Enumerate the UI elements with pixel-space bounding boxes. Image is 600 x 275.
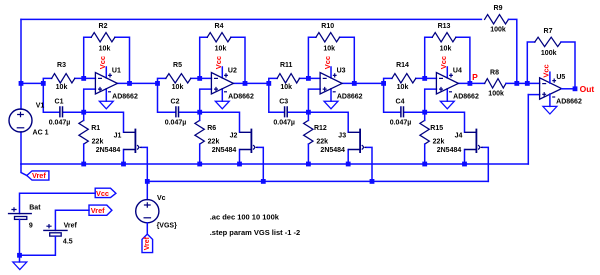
svg-text:2N5484: 2N5484 [320, 147, 345, 154]
wire stage3 gate stub [366, 147, 372, 181]
wire stage4 input riser and C lead [384, 78, 401, 112]
capacitor C3 0.047u [285, 106, 288, 117]
svg-text:Vcc: Vcc [96, 189, 109, 198]
svg-text:Bat: Bat [29, 205, 41, 212]
wire stage2 feedback loop left [200, 37, 208, 78]
svg-text:AD8662: AD8662 [453, 93, 479, 100]
svg-text:AC 1: AC 1 [33, 130, 49, 137]
svg-text:Vcc: Vcc [323, 56, 332, 69]
wire stage3 input riser and C lead [269, 78, 284, 112]
svg-text:R5: R5 [173, 62, 182, 69]
wire stage2 drain riser [200, 112, 240, 132]
resistor R5 series 10k [166, 74, 191, 83]
wire R9 to U5 inverting node [509, 19, 517, 83]
wire U5 + input from Vref bus [528, 94, 539, 96]
svg-text:10k: 10k [215, 46, 227, 53]
battery Vref 4.5V [43, 229, 67, 231]
svg-text:10k: 10k [99, 46, 111, 53]
wire opamp U3 V- pin [330, 89, 332, 101]
resistor R15 22k vertical [424, 111, 426, 113]
wire stage4 + input riser [425, 89, 437, 112]
source Vc VGS [136, 200, 159, 223]
wire Vc to Vref flag [146, 223, 148, 234]
wire input riser from top bus to V1 [20, 19, 22, 109]
svg-text:J1: J1 [114, 133, 122, 140]
svg-text:.step param VGS list -1 -2: .step param VGS list -1 -2 [210, 228, 300, 237]
wire gate bus [147, 180, 488, 182]
capacitor C2 0.047u [176, 106, 179, 117]
wire stage4 feedback loop right to output [456, 37, 470, 83]
resistor R8 100k [485, 79, 506, 88]
wire stage1 drain riser [84, 112, 124, 132]
wire gate bus to Vc [146, 181, 148, 199]
net flag Vref at battery [89, 205, 112, 215]
net flag Vcc [95, 188, 116, 197]
wire stage2 cap to + node [179, 111, 199, 113]
capacitor C1 0.047u [60, 106, 63, 117]
svg-text:R7: R7 [544, 28, 553, 35]
wire Vref battery minus [20, 236, 56, 255]
svg-text:P: P [472, 72, 478, 82]
net flag Vref below Vc [142, 234, 153, 253]
svg-text:U3: U3 [337, 68, 346, 75]
svg-text:R14: R14 [396, 62, 409, 69]
wire stage3 output [342, 82, 384, 84]
svg-text:AD8662: AD8662 [228, 93, 254, 100]
svg-text:Vref: Vref [32, 171, 46, 180]
wire opamp U2 V- pin [221, 89, 223, 101]
wire stage1 input riser and C lead [43, 78, 59, 112]
svg-text:J4: J4 [455, 133, 463, 140]
svg-text:Vref: Vref [91, 206, 105, 215]
wire stage3 source drop [347, 150, 349, 165]
wire opamp U2 V+ pin [221, 67, 223, 78]
svg-text:C2: C2 [171, 98, 180, 105]
wire stage1 gate stub [141, 147, 147, 181]
svg-text:10k: 10k [323, 46, 335, 53]
wire stage4 output [458, 82, 484, 84]
svg-text:100k: 100k [541, 50, 557, 57]
wire stage1 series resistor right lead into - input [75, 77, 96, 79]
svg-text:V1: V1 [36, 103, 45, 110]
wire stage4 source drop [464, 150, 466, 165]
svg-text:U5: U5 [556, 74, 565, 81]
svg-text:Vref: Vref [64, 223, 78, 230]
svg-text:9: 9 [29, 222, 33, 229]
svg-text:10k: 10k [440, 46, 452, 53]
wire V1 minus to Vref bus [20, 132, 22, 164]
ground at U1 [99, 101, 113, 109]
svg-text:AD8662: AD8662 [556, 99, 582, 106]
wire R7 feedback loop right [561, 42, 575, 89]
source V1 AC [9, 109, 32, 132]
transistor J1 2N5484 [134, 129, 136, 153]
svg-text:U2: U2 [228, 68, 237, 75]
svg-text:J2: J2 [230, 133, 238, 140]
ground bottom left [13, 262, 27, 270]
svg-text:J3: J3 [338, 133, 346, 140]
svg-text:C1: C1 [55, 98, 64, 105]
svg-text:R6: R6 [207, 125, 216, 132]
wire stage3 series resistor right lead into - input [300, 77, 321, 79]
svg-text:0.047µ: 0.047µ [390, 120, 412, 127]
ground at U2 [215, 101, 229, 109]
op-amp U1 AD8662 [95, 73, 117, 94]
svg-text:Vcc: Vcc [439, 56, 448, 69]
resistor R14 series 10k [392, 74, 416, 83]
wire stage1 cap to + node [63, 111, 83, 113]
wire stage1 source drop [123, 150, 125, 165]
resistor R13 feedback 10k [432, 33, 456, 42]
wire U5 V+ pin [549, 72, 551, 83]
ground at U5 [543, 106, 557, 114]
svg-text:R8: R8 [490, 69, 499, 76]
svg-text:22k: 22k [208, 139, 220, 146]
wire stage2 input riser and C lead [158, 78, 176, 112]
wire U5 V- pin [549, 94, 551, 106]
wire stage1 input stub [21, 82, 43, 84]
op-amp U5 AD8662 [540, 78, 562, 99]
resistor R7 100k feedback [535, 37, 561, 46]
resistor R9 100k top [485, 15, 509, 24]
svg-text:AD8662: AD8662 [112, 93, 138, 100]
wire R7 feedback loop left [527, 42, 535, 83]
svg-text:AD8662: AD8662 [337, 93, 363, 100]
wire Vref bus [21, 163, 528, 165]
wire opamp U3 V+ pin [330, 67, 332, 78]
svg-text:10k: 10k [56, 84, 68, 91]
wire stage3 feedback loop right to output [340, 37, 355, 83]
wire stage2 output [233, 82, 268, 84]
battery Bat 9V [8, 213, 32, 215]
wire opamp U1 V+ pin [105, 67, 107, 78]
wire stage1 feedback loop right to output [115, 37, 130, 83]
ground at U4 [440, 101, 454, 109]
wire stage4 gate stub [482, 147, 488, 181]
wire Bat minus to ground [19, 219, 21, 262]
wire stage3 + input riser [308, 89, 320, 112]
svg-text:22k: 22k [92, 139, 104, 146]
svg-text:100k: 100k [488, 91, 504, 98]
wire stage1 + input riser [84, 89, 96, 112]
net flag Vref below V1 [27, 171, 49, 180]
wire R8 to U5 - input [506, 82, 540, 84]
wire stage3 feedback loop left [308, 37, 316, 78]
wire opamp U1 V- pin [105, 89, 107, 101]
wire stage2 gate stub [257, 147, 263, 181]
resistor R4 feedback 10k [207, 33, 231, 42]
svg-text:100k: 100k [490, 27, 506, 34]
resistor R2 feedback 10k [91, 33, 115, 42]
wire stage3 cap to + node [288, 111, 308, 113]
junction dots [19, 81, 24, 86]
svg-text:R12: R12 [314, 125, 327, 132]
transistor J4 2N5484 [475, 129, 477, 153]
wire stage4 cap to + node [404, 111, 424, 113]
svg-text:10k: 10k [280, 84, 292, 91]
svg-text:Vcc: Vcc [214, 56, 223, 69]
svg-text:2N5484: 2N5484 [96, 147, 121, 154]
svg-text:R3: R3 [57, 62, 66, 69]
wire to Vref flag below V1 [21, 164, 27, 176]
wire U5 output [562, 88, 576, 90]
wire stage4 series resistor right lead into - input [416, 77, 437, 79]
op-amp U2 AD8662 [211, 73, 233, 94]
wire top bus from input to R9 [21, 18, 481, 20]
svg-text:R15: R15 [430, 125, 443, 132]
svg-text:0.047µ: 0.047µ [165, 120, 187, 127]
svg-text:2N5484: 2N5484 [212, 147, 237, 154]
wire stage1 feedback loop left [84, 37, 92, 78]
svg-text:22k: 22k [433, 139, 445, 146]
wire Bat to Vcc flag [20, 193, 96, 213]
wire stage2 feedback loop right to output [231, 37, 245, 83]
svg-text:Vcc: Vcc [542, 64, 551, 77]
wire stage2 series resistor right lead into - input [191, 77, 212, 79]
svg-text:R9: R9 [494, 5, 503, 12]
svg-text:R2: R2 [99, 23, 108, 30]
op-amp U3 AD8662 [320, 73, 342, 94]
wire stage3 drain riser [308, 112, 348, 132]
svg-text:22k: 22k [316, 139, 328, 146]
transistor J2 2N5484 [250, 129, 252, 153]
wire stage4 drain riser [425, 112, 465, 132]
svg-text:U1: U1 [112, 68, 121, 75]
svg-text:Vc: Vc [157, 195, 166, 202]
svg-text:C4: C4 [396, 98, 405, 105]
resistor R12 22k vertical [307, 111, 309, 113]
wire U5 + riser [527, 95, 529, 164]
svg-text:0.047µ: 0.047µ [49, 120, 71, 127]
op-amp U4 AD8662 [436, 73, 458, 94]
svg-text:R11: R11 [280, 62, 293, 69]
resistor R11 series 10k [277, 74, 299, 83]
svg-text:10k: 10k [397, 84, 409, 91]
svg-text:R4: R4 [215, 23, 224, 30]
wire stage1 output [117, 82, 157, 84]
wire stage2 source drop [239, 150, 241, 165]
wire stage2 + input riser [200, 89, 212, 112]
svg-text:R10: R10 [321, 23, 334, 30]
svg-text:0.047µ: 0.047µ [273, 120, 295, 127]
ground at U3 [324, 101, 338, 109]
svg-text:Vcc: Vcc [98, 56, 107, 69]
svg-text:Out: Out [580, 84, 595, 94]
resistor R1 22k vertical [83, 111, 85, 113]
svg-text:{VGS}: {VGS} [157, 223, 178, 230]
wire opamp U4 V- pin [446, 89, 448, 101]
svg-text:R1: R1 [91, 125, 100, 132]
resistor R3 series 10k [52, 74, 75, 83]
svg-text:2N5484: 2N5484 [437, 147, 462, 154]
svg-text:.ac dec 100 10 100k: .ac dec 100 10 100k [210, 213, 280, 222]
transistor J3 2N5484 [359, 129, 361, 153]
resistor R10 feedback 10k [316, 33, 340, 42]
svg-text:Vref: Vref [144, 236, 151, 250]
svg-text:10k: 10k [172, 84, 184, 91]
svg-text:R13: R13 [438, 23, 451, 30]
capacitor C4 0.047u [401, 106, 404, 117]
resistor R6 22k vertical [199, 111, 201, 113]
svg-text:4.5: 4.5 [63, 239, 73, 246]
wire stage4 feedback loop left [425, 37, 433, 78]
wire Vref battery to Vref flag [55, 210, 89, 230]
svg-text:C3: C3 [279, 98, 288, 105]
svg-text:U4: U4 [453, 68, 462, 75]
wire opamp U4 V+ pin [446, 67, 448, 78]
